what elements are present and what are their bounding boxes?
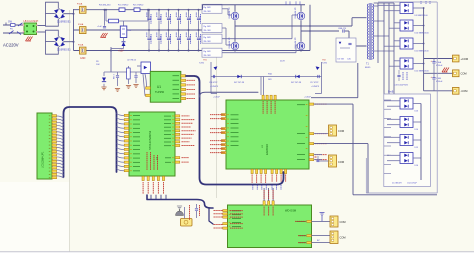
label R5A	[268, 73, 272, 82]
svg-text:C17 472P: C17 472P	[310, 82, 319, 84]
pin U4 X2	[175, 161, 180, 163]
wire MCU left pin 10	[117, 152, 124, 154]
label U4 X1 X2	[182, 158, 190, 163]
label snubber left low	[213, 97, 221, 99]
svg-text:+12V: +12V	[118, 50, 124, 53]
pin U3 right 5	[309, 159, 314, 161]
wire secondary stub 3	[374, 35, 389, 37]
label U4 bottom 5	[163, 182, 165, 194]
wire secondary stub 1	[374, 5, 378, 7]
pin U4 right 4	[175, 126, 180, 128]
pin U4 left 2	[124, 119, 129, 121]
fuse F1	[77, 3, 86, 14]
svg-text:Drv8: Drv8	[280, 60, 285, 63]
svg-text:U1: U1	[157, 85, 161, 89]
wire -DC rail	[74, 50, 311, 52]
IC U3 EG8010	[226, 100, 309, 169]
wire lower collect	[420, 104, 422, 181]
svg-text:470u: 470u	[189, 16, 191, 20]
resistor network below U3	[253, 185, 281, 190]
output section outer box	[366, 2, 437, 193]
pin U5 top 3	[272, 201, 274, 205]
gate drive network R6	[202, 34, 222, 43]
svg-text:AC220V: AC220V	[3, 43, 19, 48]
svg-text:COM: COM	[340, 220, 346, 224]
pin U3 bottom b4	[285, 169, 287, 173]
junction dots leg B	[309, 25, 311, 32]
label U4 right 3	[182, 122, 193, 124]
pin U3 top 3	[270, 95, 272, 100]
label U5 top wire 3	[272, 190, 274, 199]
label U5 top wire 2	[268, 190, 270, 199]
pin U3 bottom a4	[265, 169, 267, 173]
label U4 right 9	[182, 145, 195, 147]
label U3 bottom b1	[271, 175, 273, 183]
label U5 left in 4	[230, 223, 243, 225]
wire bypass right	[147, 10, 149, 21]
svg-text:2N:OFF: 2N:OFF	[204, 30, 212, 32]
label U3 right 2	[315, 133, 327, 135]
pin U3 bottom b2	[276, 169, 278, 173]
transistor Q4	[294, 31, 305, 51]
label U1 out 3	[187, 84, 196, 86]
pin U5 BZ3	[298, 235, 311, 237]
rectifier D9	[378, 3, 429, 18]
connector J4	[314, 125, 344, 136]
svg-text:COM: COM	[338, 129, 344, 133]
wire MCU left pin 1	[117, 114, 124, 116]
resistor R10	[127, 66, 131, 84]
pin names U1 right	[173, 75, 180, 99]
wire MCU left pin 5	[117, 131, 124, 133]
label U3 left 4	[210, 132, 225, 134]
pin U3 bottom a1	[251, 169, 253, 173]
svg-text:10K: 10K	[96, 64, 100, 66]
diode TR2	[314, 60, 327, 71]
sheet fold line middle	[216, 55, 218, 198]
pin U3 left 4	[221, 132, 226, 134]
svg-text:TLP250: TLP250	[155, 90, 165, 94]
pin U3 left 7	[221, 148, 226, 150]
wire LCD pin 10	[57, 144, 64, 146]
pin U4 left 12	[124, 161, 129, 163]
svg-text:D9 MBR20100: D9 MBR20100	[415, 15, 429, 17]
pin U4 right 1	[175, 115, 180, 117]
svg-text:Rg 10R: Rg 10R	[204, 26, 212, 28]
wire MCU left pin 12	[117, 160, 124, 162]
pin U3 top 1	[262, 95, 264, 100]
wire output collect upper	[423, 8, 425, 91]
svg-text:COM: COM	[461, 72, 467, 76]
svg-text:470u: 470u	[179, 16, 181, 20]
bus U1 outputs to PWM	[186, 76, 284, 185]
transformer T1	[365, 3, 373, 69]
antenna symbol	[320, 213, 325, 222]
EMI filter U0 label	[24, 20, 39, 23]
label U3 left 1	[210, 114, 225, 116]
label U4 right 1	[182, 115, 190, 117]
wire U3 drive pair	[261, 77, 264, 96]
label top collect	[421, 1, 430, 4]
label U1 out 2	[187, 79, 196, 81]
label U3 bottom b3	[280, 175, 282, 183]
resistor R2	[133, 5, 144, 12]
bus branch to U3 top	[200, 92, 259, 97]
label U4 bottom 3	[152, 182, 154, 194]
capacitor C3 pair	[166, 10, 170, 51]
terminal J6 +V	[453, 55, 469, 62]
crystal Y1 labels	[147, 152, 158, 170]
svg-text:U2 78L05: U2 78L05	[127, 60, 137, 62]
pin U4 bottom 1	[142, 176, 144, 180]
capacitor C2 pair	[157, 10, 161, 51]
label U5 top wire 1	[263, 190, 265, 199]
switch S1b	[9, 31, 21, 35]
label U3 left 7	[210, 148, 225, 150]
svg-text:470u: 470u	[149, 16, 151, 20]
label U3 bottom a3	[260, 175, 262, 184]
wire buzzer	[184, 207, 186, 219]
label U3 right 3	[315, 143, 327, 145]
node bridge output B	[301, 30, 339, 32]
pin U1-6	[181, 88, 186, 90]
wire U3 fanB pins	[314, 155, 322, 160]
pin U3 top 2	[266, 95, 268, 100]
pin U4 left 11	[124, 157, 129, 159]
wire snubber left end	[211, 62, 217, 94]
svg-text:Rg 10R: Rg 10R	[204, 7, 212, 9]
label U5 top out 1	[263, 207, 265, 217]
wire snubber right end	[315, 62, 322, 94]
earth below D10	[101, 84, 106, 90]
pin U4 left 6	[124, 136, 129, 138]
label U3 top 4	[274, 101, 276, 114]
pin U4 left 14	[124, 170, 129, 172]
rectifier D11	[384, 38, 429, 53]
wire MCU left pin 3	[117, 122, 124, 124]
wire primary top	[352, 18, 367, 26]
svg-text:+C45uF: +C45uF	[213, 97, 221, 99]
pin U3 left 8	[221, 152, 226, 154]
EMI filter U0	[23, 23, 38, 35]
pin U3 top 4	[274, 95, 276, 100]
pin names U4 left	[133, 115, 140, 171]
sheet fold line left	[69, 10, 71, 252]
pin U4 left 8	[124, 144, 129, 146]
pin U5 left 1	[223, 210, 228, 212]
connector J5	[329, 155, 345, 167]
svg-text:C33 100uF/50V: C33 100uF/50V	[394, 85, 409, 87]
AC line L wire	[3, 24, 24, 26]
wire U2 to U1 pin2	[143, 74, 145, 96]
label snubber right low	[304, 97, 312, 99]
wire mid rail	[74, 29, 203, 31]
label U5 left in 3	[230, 216, 243, 218]
fuse F3	[78, 44, 86, 54]
wire MCU left pin 13	[117, 165, 124, 167]
pin U5 top 1	[263, 201, 265, 205]
pin names U3 right	[297, 104, 305, 160]
svg-text:COM: COM	[338, 160, 344, 164]
svg-text:D5 GB: D5 GB	[338, 59, 345, 61]
pin U4 left 4	[124, 127, 129, 129]
svg-text:LCD12864-JP1: LCD12864-JP1	[42, 151, 45, 168]
pin U4 bottom 2	[147, 176, 149, 180]
bridge rectifier D1	[46, 2, 72, 26]
wire U5 top 2	[268, 188, 270, 201]
wire +DC rail	[74, 9, 203, 11]
pin U4 right 9	[175, 144, 180, 146]
label U3 bottom a1	[251, 175, 253, 184]
svg-text:-COM: -COM	[461, 89, 468, 93]
resistor R0 bypass	[109, 19, 119, 23]
pin J1-16	[52, 164, 57, 166]
label DrvB	[388, 90, 394, 93]
wire GSM left pins	[209, 208, 226, 228]
pin J1-19	[52, 173, 57, 175]
pin U4 bottom 5	[162, 176, 164, 180]
earth below EMI filter	[26, 37, 33, 42]
IC U4 MCU STC12C5A	[129, 112, 175, 176]
svg-text:C16 472P: C16 472P	[209, 82, 218, 84]
label AC220V	[3, 43, 19, 48]
wire relay branch down	[111, 46, 124, 72]
svg-text:+COM: +COM	[461, 57, 469, 61]
svg-text:F10A: F10A	[77, 3, 83, 6]
wire bypass left	[105, 10, 107, 21]
pin U3 left 6	[221, 144, 226, 146]
wire LCD pin 12	[57, 151, 64, 153]
pin U4 bottom 3	[152, 176, 154, 180]
pin J1-11	[52, 147, 57, 149]
transistor Q1	[228, 5, 239, 27]
wire LCD pin 4	[57, 125, 64, 127]
svg-text:Q2 IRFP460: Q2 IRFP460	[228, 38, 230, 50]
fuse F2	[78, 23, 86, 33]
relay K1	[120, 21, 132, 38]
sheet bottom border	[0, 251, 474, 253]
label U3 bottom a2	[256, 175, 258, 184]
pin U1-5	[181, 84, 186, 86]
wire MCU left pin 2	[117, 118, 124, 120]
capacitor C15 at J5	[313, 156, 329, 162]
IC U1 TLP250	[150, 71, 181, 102]
svg-text:R2 470K/2: R2 470K/2	[133, 5, 144, 7]
svg-text:470u: 470u	[159, 36, 161, 40]
capacitor C1 pair	[147, 10, 151, 51]
wire secondary stub 2	[374, 20, 384, 22]
label box bottom	[392, 183, 418, 185]
label U3 top 2	[266, 101, 268, 114]
label U5 left in 1	[230, 210, 243, 212]
AC line N wire	[3, 32, 24, 34]
svg-text:Do GB-WY: Do GB-WY	[392, 183, 403, 185]
wire LCD pin 16	[57, 163, 64, 165]
label U3 left 3	[210, 128, 225, 130]
label under fuse F3	[80, 57, 86, 60]
gate drive network R4	[202, 4, 222, 13]
wire snubber rail	[211, 76, 322, 78]
pin J1-17	[52, 167, 57, 169]
pin J1-3	[52, 121, 57, 123]
label U3 bottom a4	[265, 175, 267, 184]
capacitor C17s	[310, 75, 320, 88]
regulator U2 78L05	[111, 47, 151, 74]
rectifier D14	[387, 117, 421, 132]
wire U5 BZ to J10	[311, 236, 330, 243]
capacitor C4 pair	[176, 10, 180, 51]
svg-text:2N:OFF: 2N:OFF	[204, 55, 212, 57]
label U3 bottom b2	[276, 175, 278, 183]
rectifier D16	[387, 153, 421, 168]
wire U5 top 1	[263, 188, 265, 201]
pin names U4 right	[164, 116, 171, 163]
pin J1-20	[52, 177, 57, 179]
label U3 left 6	[210, 144, 225, 146]
svg-text:R3 480-450: R3 480-450	[99, 5, 111, 7]
terminal J8 -V	[453, 87, 468, 94]
label U5 top out 2	[268, 207, 270, 217]
wire MCU left pin 9	[117, 148, 124, 150]
wire U5 top 3	[272, 188, 274, 201]
label U3 bottom b4	[285, 175, 287, 183]
label buzzer	[189, 205, 191, 220]
svg-text:WD-GSM: WD-GSM	[285, 209, 296, 213]
pin U3 bottom b1	[271, 169, 273, 173]
pin J1-13	[52, 154, 57, 156]
label U4 right 2	[182, 119, 195, 121]
diode D3	[122, 38, 126, 47]
wire secondary rails	[374, 3, 394, 185]
capacitor C6 pair	[196, 10, 200, 51]
label U1 out 4	[187, 88, 196, 90]
svg-text:+C45uF: +C45uF	[304, 97, 312, 99]
pin J1-6	[52, 131, 57, 133]
wire output -V	[424, 90, 453, 92]
label top Q3 area	[286, 2, 300, 6]
node bridge output A	[235, 25, 352, 27]
svg-text:DrvB: DrvB	[388, 90, 394, 93]
earth below C14	[115, 89, 120, 92]
pin names U5 left	[232, 210, 241, 226]
wire U3 VFB route	[314, 144, 368, 193]
label +12V relay	[118, 50, 124, 53]
pin names U5 right	[297, 221, 307, 243]
pin U3 left 2	[221, 118, 226, 120]
pin U5 left 3	[223, 216, 228, 218]
pin J1-4	[52, 124, 57, 126]
wire output mid	[424, 72, 453, 74]
pin J1-12	[52, 150, 57, 152]
wire LCD pin 1	[57, 116, 64, 118]
wire LCD pin 2	[57, 119, 64, 121]
earth red output	[442, 68, 449, 73]
svg-text:470u: 470u	[149, 36, 151, 40]
buzzer LS1 body	[181, 219, 193, 227]
wire gate Q3	[222, 15, 298, 39]
wire LCD pin 15	[57, 160, 64, 162]
connector J9	[330, 216, 346, 227]
label U3 right 5	[315, 159, 327, 161]
svg-text:2N:OFF: 2N:OFF	[204, 41, 212, 43]
pin U3 left 1	[221, 114, 226, 116]
wire gate Q1	[222, 9, 232, 15]
wire gate Q2	[222, 28, 232, 45]
capacitor C19 upper out	[397, 70, 407, 81]
terminal J7 GND	[453, 70, 467, 77]
pin J1-18	[52, 170, 57, 172]
pin U3 right 3	[309, 143, 314, 145]
pin U1-3	[181, 75, 186, 77]
svg-text:EE55: EE55	[365, 67, 371, 69]
capacitor C11 DC block	[338, 28, 349, 33]
pin U4 left 3	[124, 123, 129, 125]
diode D8	[291, 75, 302, 84]
wire LCD pin 11	[57, 148, 64, 150]
pin J1-10	[52, 144, 57, 146]
wire bridge2 output	[64, 41, 75, 43]
fuse F0	[10, 24, 15, 31]
pin U5 BZ0	[298, 242, 311, 244]
wire LCD pin 9	[57, 141, 64, 143]
pin numbers J1	[49, 115, 51, 178]
wire bridge1 output	[64, 13, 75, 15]
pin U3 right 4	[309, 154, 314, 156]
pin J1-15	[52, 160, 57, 162]
capacitor C16s	[209, 75, 219, 88]
transistor Q3	[294, 5, 305, 32]
wire MCU left pin 6	[117, 135, 124, 137]
pin J1-2	[52, 118, 57, 120]
earth red below C0	[101, 33, 108, 38]
svg-text:S4T 24T-1N: S4T 24T-1N	[291, 82, 302, 84]
label U3 right 4	[315, 154, 327, 156]
output section inner box	[384, 94, 431, 187]
wire LCD pin 18	[57, 170, 64, 172]
label U1 out 5	[187, 93, 196, 95]
svg-text:470u: 470u	[169, 16, 171, 20]
pin U1-7	[181, 93, 186, 95]
svg-text:CBB 474: CBB 474	[338, 28, 347, 30]
connector J1 LCD	[37, 113, 52, 179]
wire U3 top feedback	[311, 63, 358, 98]
pin U4 bottom 4	[157, 176, 159, 180]
pin U1-1	[146, 87, 151, 89]
bus MCU bottom to GSM	[147, 195, 213, 208]
pin U4 left 10	[124, 153, 129, 155]
svg-text:2N:OFF: 2N:OFF	[204, 11, 212, 13]
pin U1-2	[146, 94, 151, 96]
wire primary bottom	[349, 31, 367, 46]
pin numbers U3 left	[227, 114, 229, 146]
label U4 bottom 4	[157, 182, 159, 194]
rectifier D12	[389, 58, 430, 73]
wire MCU left pin 4	[117, 126, 124, 128]
svg-text:FU: FU	[10, 29, 13, 31]
svg-text:470u: 470u	[199, 16, 201, 20]
wire MCU left pin 11	[117, 156, 124, 158]
label U4 right 7	[182, 137, 192, 139]
label upper out 1	[394, 85, 409, 87]
snubber network box	[336, 38, 356, 62]
connector J10	[330, 231, 346, 244]
wire output +V	[424, 58, 453, 60]
svg-text:+C450PF: +C450PF	[311, 86, 320, 88]
svg-text:470u: 470u	[199, 36, 201, 40]
wire bypass rail	[106, 20, 148, 22]
junction dots rails	[104, 9, 303, 52]
svg-text:Rg 10R: Rg 10R	[204, 51, 212, 53]
